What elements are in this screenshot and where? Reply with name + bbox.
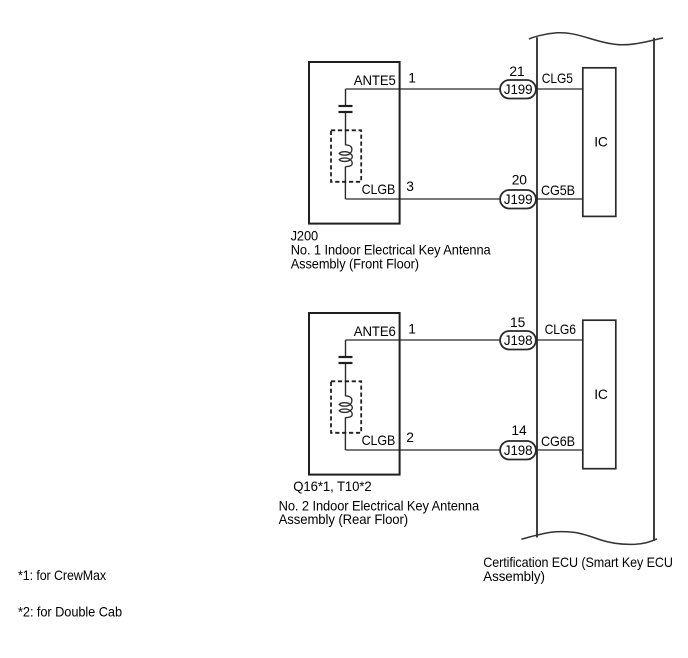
inductor L2 (No.2 antenna coil) <box>339 396 352 418</box>
capacitor C2 (No.2 antenna) <box>339 357 353 363</box>
wire CLG6 from J198 pin 15 to IC (U2) <box>537 339 583 341</box>
svg-text:J200: J200 <box>291 229 319 244</box>
svg-text:21: 21 <box>509 64 524 79</box>
svg-text:CLG5: CLG5 <box>542 71 573 86</box>
antenna assembly box J200 <box>309 62 400 224</box>
Certification ECU right boundary line <box>653 38 655 541</box>
svg-text:ANTE6: ANTE6 <box>354 324 396 339</box>
connector J199 pin 21 oval <box>500 80 536 99</box>
IC block U2 inside Certification ECU <box>583 320 616 469</box>
wire CG6B from J198 pin 14 to IC (U2) <box>537 449 583 451</box>
wire pin3 CLGB from J200 to connector J199 pin 20 <box>346 198 500 200</box>
wire internal box2: pin1 down to capacitor <box>345 340 347 356</box>
svg-text:J198: J198 <box>504 333 533 348</box>
svg-text:14: 14 <box>511 423 527 438</box>
inductor L1 (J200 antenna coil) <box>339 145 352 167</box>
wire pin2 CLGB from antenna box 2 to connector J198 pin 14 <box>346 449 500 451</box>
connector J199 pin 20 oval <box>500 190 536 209</box>
svg-text:1: 1 <box>408 71 416 86</box>
svg-text:*2: for Double Cab: *2: for Double Cab <box>18 605 122 620</box>
wire internal J200: pin1 down to capacitor <box>345 89 347 105</box>
svg-text:1: 1 <box>408 322 416 337</box>
antenna assembly box Q16/T10 <box>309 313 400 475</box>
svg-text:2: 2 <box>406 430 414 445</box>
svg-text:20: 20 <box>512 172 528 187</box>
svg-text:15: 15 <box>510 315 526 330</box>
dashed enclosure around No.2 coil <box>331 381 361 433</box>
svg-text:IC: IC <box>594 135 608 150</box>
svg-text:CG5B: CG5B <box>541 183 575 198</box>
svg-text:CG6B: CG6B <box>541 434 575 449</box>
svg-text:IC: IC <box>594 387 608 402</box>
svg-text:Assembly (Rear Floor): Assembly (Rear Floor) <box>279 512 409 527</box>
svg-text:J199: J199 <box>504 192 533 207</box>
svg-text:ANTE5: ANTE5 <box>354 73 396 88</box>
IC block U1 inside Certification ECU <box>583 68 616 217</box>
svg-text:Certification ECU (Smart Key E: Certification ECU (Smart Key ECU <box>483 555 673 570</box>
wire internal J200: coil down to pin3 <box>344 167 346 199</box>
svg-text:J199: J199 <box>504 82 533 97</box>
svg-text:Assembly (Front Floor): Assembly (Front Floor) <box>291 256 419 271</box>
svg-text:*1: for CrewMax: *1: for CrewMax <box>18 568 106 583</box>
svg-text:Q16*1, T10*2: Q16*1, T10*2 <box>293 479 371 494</box>
capacitor C1 (J200 antenna) <box>339 106 353 112</box>
wire CLG5 from J199 pin 21 to IC (U1) <box>537 88 583 90</box>
wire pin1 ANTE5 from J200 to connector J199 pin 21 <box>346 88 500 90</box>
Certification ECU torn bottom edge (wavy) <box>521 532 657 545</box>
svg-text:CLGB: CLGB <box>362 433 396 448</box>
connector J198 pin 15 oval <box>500 331 536 350</box>
Certification ECU torn top edge (wavy) <box>529 33 663 45</box>
svg-text:Assembly): Assembly) <box>483 569 545 584</box>
dashed enclosure around J200 coil <box>331 130 361 182</box>
Certification ECU left boundary line <box>536 37 538 537</box>
svg-text:CLG6: CLG6 <box>545 322 577 337</box>
svg-text:CLGB: CLGB <box>362 182 396 197</box>
svg-text:3: 3 <box>406 179 414 194</box>
wire pin1 ANTE6 from antenna box 2 to connector J198 pin 15 <box>346 339 500 341</box>
svg-text:J198: J198 <box>504 443 533 458</box>
wire CG5B from J199 pin 20 to IC (U1) <box>537 198 583 200</box>
wire internal box2: coil down to pin2 <box>344 418 346 450</box>
connector J198 pin 14 oval <box>500 441 536 460</box>
svg-text:No. 1 Indoor Electrical Key An: No. 1 Indoor Electrical Key Antenna <box>291 243 491 258</box>
wire internal J200: capacitor to coil <box>345 113 347 145</box>
wire internal box2: capacitor to coil <box>345 364 347 396</box>
